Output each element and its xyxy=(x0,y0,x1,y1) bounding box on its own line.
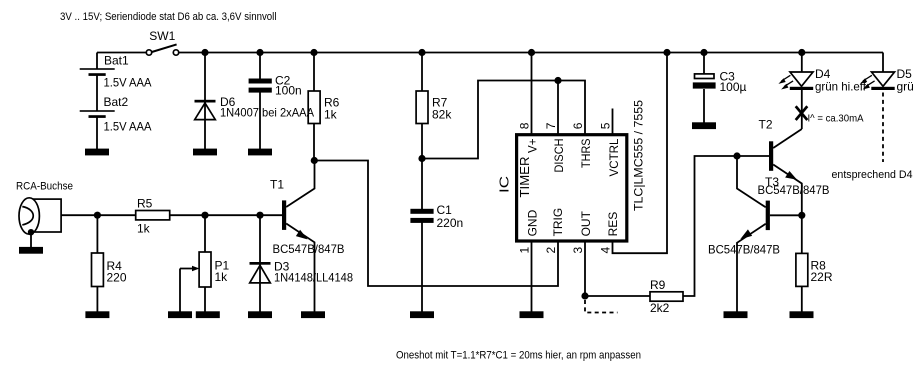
svg-text:BC547B/847B: BC547B/847B xyxy=(708,243,780,257)
svg-text:1k: 1k xyxy=(215,270,229,284)
IC U1 555 box xyxy=(517,135,627,241)
resistor R4 xyxy=(92,253,104,287)
svg-text:1.5V AAA: 1.5V AAA xyxy=(104,120,152,134)
svg-text:I^ = ca.30mA: I^ = ca.30mA xyxy=(808,114,864,125)
svg-text:C1: C1 xyxy=(437,203,453,217)
wire battery to ground xyxy=(96,118,98,150)
transistor T3 (mirrored) xyxy=(741,201,770,239)
wire R4 top xyxy=(96,215,98,253)
svg-text:1k: 1k xyxy=(137,222,151,236)
node OUT R9 xyxy=(581,292,588,299)
svg-text:6: 6 xyxy=(571,122,585,129)
wire OUT dashed stub xyxy=(585,300,618,313)
wire THRS DISCH net xyxy=(422,81,585,159)
ground RCA xyxy=(19,247,43,254)
wire RES to rail xyxy=(613,53,668,254)
node rail-V+ xyxy=(528,49,535,56)
resistor R5 xyxy=(136,211,170,220)
wire T2 emitter xyxy=(773,165,802,216)
svg-text:1: 1 xyxy=(518,247,532,254)
ground IC pin1 xyxy=(520,311,544,318)
ground R4 xyxy=(85,311,109,318)
wire battery top xyxy=(96,53,98,70)
wire P1 bottom xyxy=(204,287,206,312)
LED D4 xyxy=(778,72,813,90)
svg-text:TIMER: TIMER xyxy=(518,157,532,198)
wire TRIG net xyxy=(314,161,558,287)
svg-text:DISCH: DISCH xyxy=(552,139,566,173)
ground C3 xyxy=(692,122,716,129)
wire pin1 GND xyxy=(531,241,533,312)
ground C1 xyxy=(410,311,434,318)
wire R6 top xyxy=(313,53,315,92)
ground T3 emitter xyxy=(724,311,748,318)
wire C3 bottom xyxy=(703,89,705,123)
ground T1 emitter xyxy=(301,311,325,318)
wire OUT to R9 xyxy=(585,241,650,296)
wire T3 base xyxy=(770,214,802,216)
svg-text:OUT: OUT xyxy=(579,210,593,236)
svg-text:4: 4 xyxy=(599,247,613,254)
svg-text:2: 2 xyxy=(544,247,558,254)
svg-text:BC547B/847B: BC547B/847B xyxy=(273,242,345,256)
switch SW1 xyxy=(146,44,178,55)
svg-text:100µ: 100µ xyxy=(720,80,747,94)
wire battery middle xyxy=(96,76,98,112)
svg-text:BC547B/847B: BC547B/847B xyxy=(758,183,830,197)
svg-text:1k: 1k xyxy=(324,108,338,122)
ground D3 xyxy=(248,311,272,318)
wire RCA to R5 xyxy=(61,214,136,216)
ground R8 xyxy=(790,311,814,318)
wire T2 collector xyxy=(773,129,802,148)
wire RCA shield xyxy=(30,232,32,247)
capacitor C1 xyxy=(410,209,433,223)
wire C2 bottom xyxy=(259,93,261,150)
svg-text:SW1: SW1 xyxy=(149,29,175,43)
node DISCH THRS xyxy=(554,77,561,84)
resistor R6 xyxy=(308,91,320,124)
svg-text:grün hi.eff: grün hi.eff xyxy=(815,80,867,94)
battery Bat1 xyxy=(80,68,115,76)
svg-text:1N4007 bei 2xAAA: 1N4007 bei 2xAAA xyxy=(220,106,314,120)
svg-text:R5: R5 xyxy=(137,197,153,211)
node R6 T1 collector xyxy=(311,157,318,164)
wire D4 top xyxy=(801,53,803,73)
svg-text:T1: T1 xyxy=(270,178,284,192)
ground P1 wiper xyxy=(168,311,192,318)
node R7 C1 THRS xyxy=(418,155,425,162)
svg-text:5: 5 xyxy=(599,122,613,129)
svg-text:V+: V+ xyxy=(526,139,540,154)
wire T1 collector xyxy=(286,161,314,208)
svg-text:82k: 82k xyxy=(432,108,452,122)
node rail-C2 xyxy=(256,49,263,56)
node rail-C3 xyxy=(700,49,707,56)
wire P1 wiper xyxy=(180,269,193,312)
wire C2 top xyxy=(259,53,261,80)
svg-text:grün hi.eff: grün hi.eff xyxy=(897,80,914,94)
node rail-R6 xyxy=(310,49,317,56)
transistor T1 xyxy=(282,200,307,238)
node rail-R7 xyxy=(418,49,425,56)
svg-text:Bat1: Bat1 xyxy=(104,54,129,68)
capacitor C2 xyxy=(249,79,272,93)
svg-text:TRIG: TRIG xyxy=(551,208,565,237)
node rail-D6 xyxy=(201,49,208,56)
svg-text:1.5V AAA: 1.5V AAA xyxy=(104,76,152,90)
node rail-D4 xyxy=(798,49,805,56)
resistor R7 xyxy=(416,91,428,124)
wire D5 drop xyxy=(882,53,884,73)
node P1 input xyxy=(201,212,208,219)
svg-text:TLC|LMC555 / 7555: TLC|LMC555 / 7555 xyxy=(631,100,645,211)
wire pin7 DISCH xyxy=(557,81,559,136)
diode D6 xyxy=(195,100,216,120)
svg-text:2k2: 2k2 xyxy=(650,301,670,315)
node R4 input xyxy=(94,212,101,219)
wire top rail right xyxy=(178,52,883,54)
diode D3 xyxy=(250,262,271,283)
RCA connector xyxy=(19,198,61,236)
svg-text:R9: R9 xyxy=(650,278,666,292)
wire R9 to T2 base xyxy=(683,156,769,296)
svg-text:THRS: THRS xyxy=(579,139,593,169)
svg-text:100n: 100n xyxy=(275,84,302,98)
node T2 emitter R8 xyxy=(798,212,805,219)
wire T3 emitter xyxy=(737,224,766,312)
svg-text:RCA-Buchse: RCA-Buchse xyxy=(16,181,73,193)
svg-text:3: 3 xyxy=(571,247,585,254)
ground battery xyxy=(85,149,109,156)
transistor T2 xyxy=(769,141,796,179)
wire top rail left xyxy=(97,52,146,54)
battery Bat2 xyxy=(80,110,115,118)
node T2 base T3 collector xyxy=(733,152,740,159)
svg-text:IC: IC xyxy=(496,176,511,193)
potentiometer P1 xyxy=(192,252,211,287)
wire R7 top xyxy=(421,53,423,92)
wire T1 emitter xyxy=(286,224,314,312)
wire pin8 V+ xyxy=(531,53,533,136)
svg-text:RES: RES xyxy=(606,212,620,237)
svg-text:220: 220 xyxy=(107,271,127,285)
node rail-RES xyxy=(663,49,670,56)
wire T3 collector xyxy=(737,156,766,207)
ground D6 xyxy=(193,149,217,156)
svg-text:VCTRL: VCTRL xyxy=(607,138,621,176)
wire P1 top xyxy=(204,215,206,252)
resistor R9 xyxy=(650,292,683,301)
capacitor C3 (electrolytic) xyxy=(693,74,716,89)
wire R8 top xyxy=(801,215,803,253)
svg-text:8: 8 xyxy=(518,122,532,129)
ground P1 xyxy=(196,311,220,318)
wire R6 bottom xyxy=(313,124,315,161)
wire pin5 VCTRL stub xyxy=(612,109,614,136)
svg-text:3V .. 15V; Seriendiode stat D6: 3V .. 15V; Seriendiode stat D6 ab ca. 3,… xyxy=(60,11,277,23)
svg-text:T2: T2 xyxy=(759,118,773,132)
svg-text:1N4148/LL4148: 1N4148/LL4148 xyxy=(274,271,353,285)
svg-text:GND: GND xyxy=(526,209,540,236)
wire D3 top xyxy=(259,215,261,311)
svg-text:220n: 220n xyxy=(437,216,464,230)
svg-text:7: 7 xyxy=(544,122,558,129)
svg-text:Oneshot mit T=1.1*R7*C1 = 20ms: Oneshot mit T=1.1*R7*C1 = 20ms hier, an … xyxy=(396,350,641,362)
wire R5 to T1 base xyxy=(170,214,282,216)
resistor R8 xyxy=(796,253,808,286)
svg-text:Bat2: Bat2 xyxy=(104,95,129,109)
wire R8 bottom xyxy=(801,287,803,312)
measurement point X xyxy=(796,106,808,120)
wire C3 top xyxy=(703,53,705,75)
wire R7 bottom xyxy=(421,124,423,159)
wire D4 cathode to X xyxy=(801,90,803,129)
wire D5 dashed xyxy=(882,93,884,163)
svg-text:22R: 22R xyxy=(811,270,833,284)
wire C1 top xyxy=(421,159,423,210)
wire C1 bottom xyxy=(421,223,423,312)
svg-text:entsprechend D4: entsprechend D4 xyxy=(832,169,913,181)
wire R4 bottom xyxy=(96,287,98,312)
ground C2 xyxy=(248,149,272,156)
node D3 T1 base xyxy=(256,212,263,219)
LED D5 xyxy=(860,72,895,90)
wire D6 top xyxy=(204,53,206,150)
